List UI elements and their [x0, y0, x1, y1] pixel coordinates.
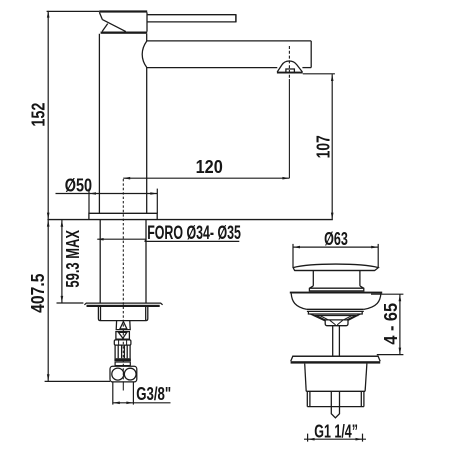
d63 arrow left	[293, 246, 300, 249]
svg-text:152: 152	[28, 103, 49, 127]
arrow down at deck (152 bottom)	[47, 213, 50, 220]
svg-text:Ø63: Ø63	[324, 230, 348, 250]
4-65 dimension line	[399, 294, 401, 354]
G3/8 extension right	[132, 382, 134, 404]
d50 extension left	[88, 189, 90, 214]
59.3 MAX dimension line	[61, 220, 63, 303]
under-deck plate bottom thick	[87, 305, 160, 307]
aerator bottom thick line	[277, 72, 303, 74]
G1 1/4 dimension line	[304, 438, 366, 440]
d50 arrow left	[89, 192, 96, 195]
svg-text:G3/8": G3/8"	[136, 384, 171, 405]
svg-text:120: 120	[196, 156, 223, 177]
107 arrow up	[331, 74, 334, 81]
59.3 arrow up	[61, 220, 64, 227]
svg-text:G1 1/4”: G1 1/4”	[314, 422, 358, 442]
d63 extension right	[377, 244, 379, 267]
G1 1/4 arrow right	[356, 438, 363, 441]
hose rib 3	[123, 345, 125, 358]
drain cup under cone	[325, 320, 348, 326]
cone tip V inside cup	[330, 320, 343, 325]
drain body bottom	[306, 390, 365, 392]
under-deck plate top	[84, 303, 162, 305]
handle cap top thick line	[99, 10, 147, 12]
d63 extension left	[292, 244, 294, 267]
arrow down bottom (407.5)	[47, 374, 50, 381]
FORO leader arrow	[97, 238, 104, 241]
svg-text:407.5: 407.5	[27, 273, 49, 313]
G1 1/4 extension stubs	[308, 434, 363, 442]
drain body right	[365, 364, 367, 392]
drain plate top	[291, 356, 381, 361]
drain cap	[293, 264, 378, 270]
hose rib 1	[117, 345, 119, 358]
drain neck right	[359, 271, 361, 286]
d63 arrow right	[371, 246, 378, 249]
d63 dimension line	[293, 246, 378, 248]
braided hose body	[115, 345, 130, 358]
svg-text:107: 107	[313, 135, 333, 158]
107 arrow down	[331, 213, 334, 220]
hose nut	[114, 340, 131, 345]
120 arrow right	[282, 177, 289, 180]
arrow up at deck (407.5 top)	[47, 220, 50, 227]
spout bottom right of aerator	[302, 67, 311, 69]
faucet body right edge lower	[146, 67, 148, 213]
svg-text:59.3 MAX: 59.3 MAX	[64, 230, 84, 288]
handle cap diagonal joint	[102, 20, 125, 32]
bell left profile	[291, 294, 307, 310]
120 dimension line	[123, 177, 289, 179]
dimension line 152/407.5 vertical	[47, 11, 49, 381]
G3/8 extension left	[112, 382, 114, 404]
arrow up top	[47, 11, 50, 18]
59.3 extension line bottom	[57, 302, 84, 304]
aerator dome outline	[277, 61, 302, 72]
mounting block inner right	[145, 307, 147, 320]
faucet body right edge upper	[146, 34, 148, 41]
extension line bottom to valve block	[45, 380, 110, 382]
valve circle right	[124, 368, 136, 380]
lever rod end cap	[235, 14, 237, 22]
connector upper triangle	[120, 322, 127, 329]
shank right edge	[145, 220, 147, 303]
aerator center line dashed	[288, 46, 290, 79]
thread section right	[361, 391, 364, 406]
bell right profile	[364, 294, 381, 310]
drain neck flange mid line	[309, 287, 363, 289]
hex nut facet lines	[119, 340, 127, 345]
mounting block inner left	[100, 307, 102, 320]
spout root concave curve	[142, 41, 147, 68]
svg-text:FORO Ø34- Ø35: FORO Ø34- Ø35	[147, 222, 241, 243]
bell bottom double line	[307, 309, 364, 311]
cone right side	[347, 314, 360, 321]
aerator center line solid to 120 dim	[288, 79, 290, 178]
aerator outlet rect	[286, 69, 295, 73]
faucet body left edge	[98, 34, 100, 214]
deck line	[47, 219, 332, 221]
drain pin	[331, 391, 339, 418]
valve circle left	[112, 368, 124, 380]
center stub below valve block	[122, 382, 124, 391]
connector upper trapezoid	[116, 321, 130, 330]
bell lower ring	[308, 311, 362, 314]
4-65 arrow down	[399, 348, 402, 355]
drain plate top line	[293, 355, 378, 357]
spout bottom left of aerator	[147, 67, 278, 69]
lever rod top	[147, 14, 236, 16]
cone left side	[311, 314, 326, 321]
d50 arrow right	[150, 192, 157, 195]
svg-text:4 - 65: 4 - 65	[380, 303, 401, 345]
hose end ring thick	[114, 358, 130, 361]
hose rib 2	[121, 345, 123, 358]
drain neck left	[312, 271, 314, 286]
FORO leader line across shank	[97, 238, 146, 240]
drain plate bottom thick	[291, 361, 381, 363]
107 extension line	[303, 73, 335, 75]
mounting block	[98, 307, 147, 321]
drain cap bottom line	[295, 270, 375, 272]
hose rib 4	[126, 345, 128, 358]
handle cap bottom thick line	[101, 32, 148, 34]
extension line top at handle	[47, 10, 100, 12]
connector lower piece	[116, 332, 129, 340]
FORO leader jog	[145, 239, 147, 241]
base flange	[89, 213, 157, 219]
spout top line	[147, 40, 312, 42]
valve block	[110, 366, 137, 382]
diameter 50 dimension line with tail	[56, 193, 158, 195]
G3/8 arrow left	[113, 402, 120, 405]
59.3 arrow down	[61, 296, 64, 303]
cone spoke 4	[342, 316, 352, 321]
thread bottom line	[307, 406, 364, 408]
drain body left	[305, 364, 307, 392]
cone spoke 2	[320, 316, 330, 321]
d50 extension right	[156, 189, 158, 214]
G3/8 arrow right	[126, 402, 133, 405]
G1 1/4 arrow left	[308, 438, 315, 441]
107 dimension line	[331, 74, 333, 219]
4-65 arrow up	[399, 294, 402, 301]
cone top line	[314, 315, 359, 317]
cone spoke 1	[316, 316, 327, 322]
spout right end	[310, 41, 312, 68]
svg-text:Ø50: Ø50	[65, 175, 92, 196]
cone spoke 3	[345, 316, 356, 322]
drain stem right	[338, 326, 340, 356]
hose lower ring	[115, 362, 130, 366]
thread section left	[307, 391, 310, 406]
4-65 extension bottom	[377, 354, 404, 356]
4-65 extension top	[371, 293, 403, 295]
G3/8 dimension line	[113, 402, 171, 404]
handle cap right edge	[146, 12, 148, 31]
handle cap wedge line	[102, 24, 108, 32]
faucet center line dashed	[122, 179, 124, 382]
bell rim thick	[290, 292, 382, 294]
FORO underline	[145, 240, 240, 242]
drain neck flange	[309, 286, 363, 291]
drain stem left	[332, 326, 334, 356]
connector lower triangle	[119, 332, 127, 338]
shank left edge	[99, 220, 101, 303]
120 arrow left	[123, 177, 130, 180]
lever rod bottom	[147, 21, 236, 23]
handle cap left edge	[99, 12, 102, 19]
